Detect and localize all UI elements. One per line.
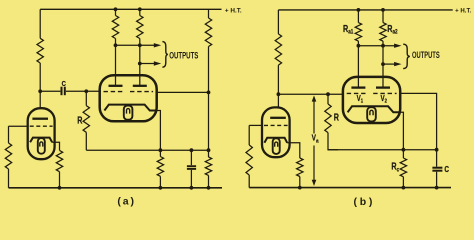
resistor: V1 cathode bias (56, 150, 62, 171)
anode bar 1 (351, 86, 365, 88)
node: cathode resistor to rail (58, 186, 62, 190)
output arrow 1 (b) (357, 44, 361, 48)
brace (b) (403, 44, 410, 68)
node: V1 anode / C junction (38, 89, 42, 93)
node: divider tap / grid2 (207, 91, 211, 95)
resistor R (grid leak) (85, 91, 87, 105)
svg-text:R: R (77, 114, 83, 125)
wire: anode to grid V1 (direct coupling) (278, 93, 344, 95)
node: mid wire / divider (207, 148, 211, 152)
svg-text:+ H.T.: + H.T. (455, 7, 471, 14)
svg-text:C: C (62, 80, 66, 88)
resistor: cathode bias (b) (297, 158, 303, 177)
svg-text:(a): (a) (117, 195, 134, 207)
resistor: anode load a2 (138, 7, 142, 11)
resistor: V1 anode load (b) (277, 10, 279, 34)
dimension arrow Va (313, 98, 315, 134)
node: divider to rail (207, 186, 211, 190)
resistor: V1 grid to ground (8, 126, 10, 143)
anode bar (270, 117, 286, 119)
wire: grid (b small tube) (249, 124, 262, 126)
wire: HT rail (a) (40, 8, 221, 10)
output arrow 2 (b) (381, 62, 385, 66)
resistor R (b) (327, 94, 329, 104)
svg-text:(b): (b) (354, 196, 373, 208)
svg-text:R: R (334, 111, 340, 122)
grid 1 (dashed) (104, 91, 125, 93)
grid 2 (dashed) (373, 92, 396, 94)
svg-text:OUTPUTS: OUTPUTS (169, 51, 198, 61)
node: C top (435, 148, 439, 152)
resistor: HT dropper upper (208, 9, 210, 18)
node: C bottom (435, 186, 439, 190)
node (298, 186, 302, 190)
wire: grid2 to cathode node (b) (400, 93, 436, 149)
anode bar 2 (376, 86, 390, 88)
triode envelope (262, 107, 290, 157)
common cathode (348, 106, 401, 112)
brace (a) (162, 42, 167, 68)
resistor: common cathode tail (157, 157, 163, 177)
node: Rc top (402, 148, 406, 152)
double-triode envelope (343, 77, 400, 123)
wire: bottom rail (a) (9, 187, 223, 189)
svg-text:OUTPUTS: OUTPUTS (412, 50, 440, 60)
output arrow 1 (a) (114, 43, 118, 47)
node: tail resistor to rail (159, 186, 163, 190)
common cathode (104, 105, 156, 111)
heater loop (38, 138, 45, 154)
resistor: anode load a1 (114, 7, 118, 11)
wire: HT rail (b) (278, 9, 452, 11)
capacitor C (coupling) (61, 87, 63, 96)
capacitor: cathode bypass (a) (190, 150, 192, 165)
resistor Ra2 (381, 8, 385, 12)
grid 1 (dashed) (347, 92, 368, 94)
wire: cathode (b small tube) (287, 143, 300, 158)
grid (dashed) (30, 125, 53, 127)
anode bar 2 (133, 85, 147, 87)
anode bar (32, 118, 48, 120)
wire: anode to coupling cap (40, 90, 60, 92)
wire: common cathode (b) (400, 112, 403, 149)
grid 2 (dashed) (130, 91, 153, 93)
capacitor C (b bypass) (436, 150, 438, 167)
svg-text:C: C (444, 164, 449, 174)
node: R top tap (326, 92, 330, 96)
node: grid side of C / R top (84, 89, 88, 93)
cathode (30, 138, 52, 143)
triode envelope (28, 108, 55, 159)
anode bar 1 (109, 85, 123, 87)
grid (dashed) (264, 124, 288, 126)
cathode (264, 138, 287, 143)
double-triode envelope (100, 75, 157, 121)
wire: common cathode down (157, 111, 161, 157)
output arrow 2 (a) (138, 62, 142, 66)
node: Rc bottom (402, 186, 406, 190)
wire: V1 cathode (52, 142, 59, 150)
resistor: divider lower (208, 150, 210, 157)
wire: mid node (86, 149, 208, 151)
wire: cathode node (b) (328, 149, 437, 151)
wire: grid of V1 to grid resistor (9, 125, 28, 127)
heater loop (367, 107, 376, 121)
resistor: V1 anode load (left, to HT) (39, 9, 41, 38)
resistor Rc (402, 150, 404, 158)
node: V1 anode (b) (277, 92, 281, 96)
resistor Ra1 (357, 8, 361, 12)
svg-text:+ H.T.: + H.T. (225, 7, 242, 14)
heater loop (273, 138, 280, 154)
wire: bottom rail (b) (249, 187, 451, 189)
node: cathode / mid wire (159, 148, 163, 152)
wire: cap to grid 1 of V2/V3 (66, 90, 101, 92)
resistor: grid to ground (b) (248, 125, 250, 145)
heater loop (124, 106, 133, 120)
wire: grid2 to HT divider tap (157, 91, 209, 93)
